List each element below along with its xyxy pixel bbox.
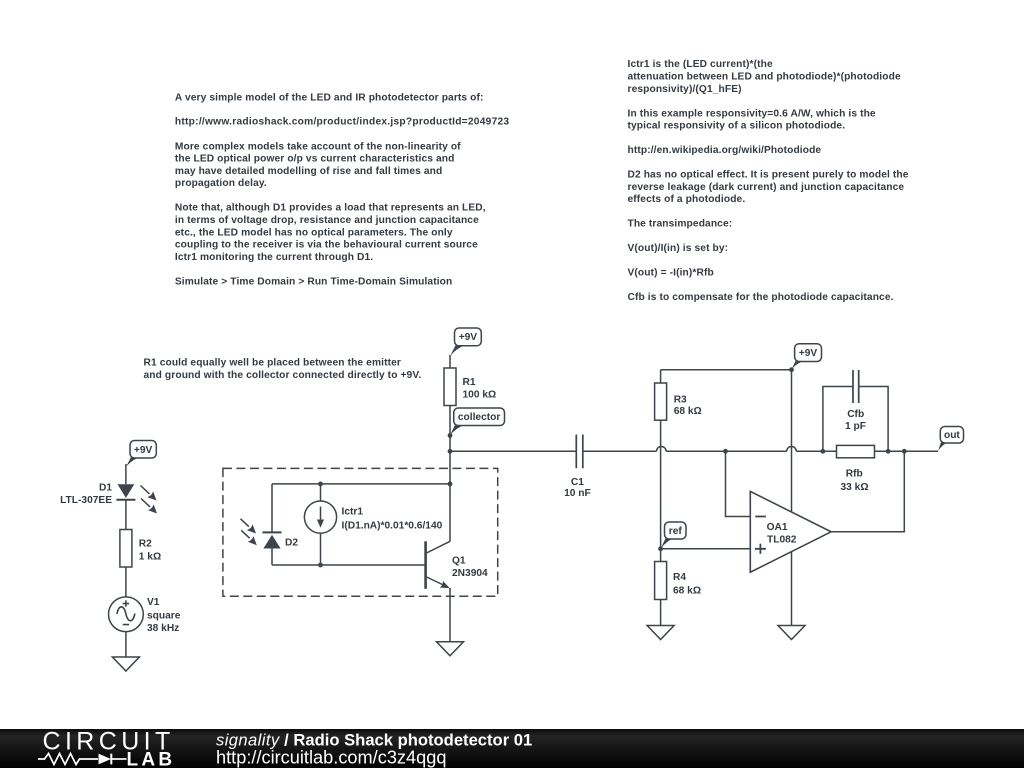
svg-text:D2: D2 (285, 538, 298, 549)
svg-text:Note that, although D1 provide: Note that, although D1 provides a load t… (175, 203, 486, 214)
svg-text:http://en.wikipedia.org/wiki/P: http://en.wikipedia.org/wiki/Photodiode (628, 145, 822, 156)
svg-text:R4: R4 (673, 572, 686, 583)
svg-text:Q1: Q1 (452, 556, 466, 567)
svg-text:Ictr1: Ictr1 (342, 506, 364, 517)
svg-text:V(out)/I(in) is set by:: V(out)/I(in) is set by: (628, 243, 729, 254)
svg-text:A very simple model of the LED: A very simple model of the LED and IR ph… (175, 93, 484, 104)
svg-text:C1: C1 (571, 477, 584, 488)
svg-text:Rfb: Rfb (846, 469, 863, 480)
svg-text:1 pF: 1 pF (845, 421, 866, 432)
svg-text:D2 has no optical effect. It i: D2 has no optical effect. It is present … (628, 170, 909, 181)
svg-text:Simulate > Time Domain > Run T: Simulate > Time Domain > Run Time-Domain… (175, 276, 452, 287)
svg-text:the LED optical power o/p vs c: the LED optical power o/p vs current cha… (175, 154, 455, 165)
svg-text:Cfb: Cfb (847, 409, 864, 420)
svg-text:reverse leakage (dark current): reverse leakage (dark current) and junct… (628, 182, 905, 193)
svg-text:R3: R3 (674, 394, 687, 405)
svg-text:The transimpedance:: The transimpedance: (628, 219, 733, 230)
svg-text:68 kΩ: 68 kΩ (673, 586, 701, 597)
svg-text:square: square (147, 610, 181, 621)
svg-text:+9V: +9V (459, 332, 478, 343)
svg-text:2N3904: 2N3904 (452, 568, 488, 579)
svg-text:may have detailed modelling of: may have detailed modelling of rise and … (175, 166, 442, 177)
svg-text:More complex models take accou: More complex models take account of the … (175, 141, 461, 152)
svg-text:responsivity)/(Q1_hFE): responsivity)/(Q1_hFE) (628, 84, 742, 95)
svg-text:etc., the LED model has no opt: etc., the LED model has no optical param… (175, 227, 453, 238)
svg-text:1 kΩ: 1 kΩ (139, 551, 161, 562)
svg-text:and ground with the collector: and ground with the collector connected … (144, 370, 422, 381)
svg-text:in terms of voltage drop, resi: in terms of voltage drop, resistance and… (175, 215, 479, 226)
svg-text:100 kΩ: 100 kΩ (463, 390, 497, 401)
svg-text:33 kΩ: 33 kΩ (841, 482, 869, 493)
svg-text:typical responsivity of a sili: typical responsivity of a silicon photod… (628, 121, 846, 132)
svg-text:attenuation between LED and ph: attenuation between LED and photodiode)*… (628, 72, 901, 83)
svg-text:LAB: LAB (127, 750, 176, 768)
svg-text:+9V: +9V (799, 348, 818, 359)
svg-text:coupling to the receiver is vi: coupling to the receiver is via the beha… (175, 240, 478, 251)
svg-text:http://www.radioshack.com/prod: http://www.radioshack.com/product/index.… (175, 117, 510, 128)
svg-text:R1 could equally well be place: R1 could equally well be placed between … (144, 358, 401, 369)
svg-text:collector: collector (458, 412, 500, 423)
svg-text:D1: D1 (99, 483, 112, 494)
svg-text:http://circuitlab.com/c3z4qgq: http://circuitlab.com/c3z4qgq (216, 747, 447, 767)
svg-text:V(out) = -I(in)*Rfb: V(out) = -I(in)*Rfb (628, 268, 714, 279)
svg-text:R1: R1 (463, 377, 476, 388)
svg-text:10 nF: 10 nF (564, 488, 591, 499)
svg-text:Cfb is to compensate for the p: Cfb is to compensate for the photodiode … (628, 292, 894, 303)
svg-text:out: out (944, 430, 960, 441)
svg-text:In this example responsivity=0: In this example responsivity=0.6 A/W, wh… (628, 108, 876, 119)
svg-text:LTL-307EE: LTL-307EE (60, 495, 112, 506)
svg-text:68 kΩ: 68 kΩ (674, 406, 702, 417)
svg-text:effects of a photodiode.: effects of a photodiode. (628, 194, 746, 205)
svg-text:Ictr1 monitoring the current t: Ictr1 monitoring the current through D1. (175, 252, 373, 263)
svg-text:TL082: TL082 (767, 534, 797, 545)
svg-text:V1: V1 (147, 597, 160, 608)
svg-text:+9V: +9V (134, 445, 153, 456)
svg-text:R2: R2 (139, 538, 152, 549)
svg-text:I(D1.nA)*0.01*0.6/140: I(D1.nA)*0.01*0.6/140 (342, 521, 443, 532)
svg-text:OA1: OA1 (767, 522, 788, 533)
svg-text:Ictr1 is the (LED current)*(th: Ictr1 is the (LED current)*(the (628, 59, 773, 70)
svg-text:propagation delay.: propagation delay. (175, 178, 267, 189)
svg-text:38 kHz: 38 kHz (147, 623, 179, 634)
svg-text:ref: ref (669, 526, 683, 537)
